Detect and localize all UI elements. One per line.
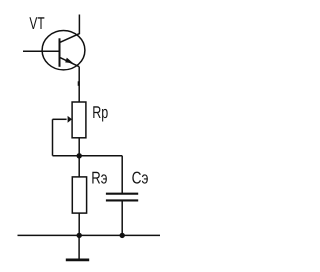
capacitor CE lead top bbox=[121, 156, 123, 193]
wire resistor to bottom rail bbox=[78, 213, 80, 235]
bottom rail wire bbox=[18, 234, 161, 236]
potentiometer Rp wiper arrow bbox=[53, 118, 67, 120]
resistor RE body bbox=[72, 177, 86, 213]
svg-text:VT: VT bbox=[29, 14, 44, 33]
wire emitter to potentiometer bbox=[78, 67, 80, 102]
wire wiper to node bbox=[53, 155, 80, 157]
svg-text:Rp: Rp bbox=[92, 103, 108, 122]
capacitor CE lead bottom bbox=[121, 202, 123, 236]
wire pot bottom to node bbox=[78, 138, 80, 177]
wire node to capacitor branch bbox=[79, 155, 122, 157]
transistor VT base bar bbox=[59, 38, 61, 67]
wire emitter lead bbox=[60, 57, 80, 66]
capacitor CE top plate bbox=[106, 193, 138, 195]
transistor VT emitter arrow bbox=[65, 58, 73, 64]
transistor Q1 (VT) circle bbox=[42, 31, 85, 70]
wire wiper down bbox=[52, 119, 54, 155]
capacitor CE bottom plate bbox=[106, 199, 138, 201]
potentiometer Rp body bbox=[72, 102, 86, 138]
junction blip on wire bbox=[78, 81, 80, 86]
ground stub bbox=[78, 235, 80, 258]
node dot capacitor-rail bbox=[120, 233, 125, 238]
wire base lead bbox=[23, 50, 60, 52]
ground bar bbox=[66, 258, 89, 261]
svg-text:Rэ: Rэ bbox=[91, 169, 107, 188]
node junction dot bbox=[77, 153, 82, 158]
wire collector lead up bbox=[60, 15, 80, 43]
node dot resistor-rail bbox=[77, 233, 82, 238]
svg-text:Cэ: Cэ bbox=[132, 168, 149, 187]
